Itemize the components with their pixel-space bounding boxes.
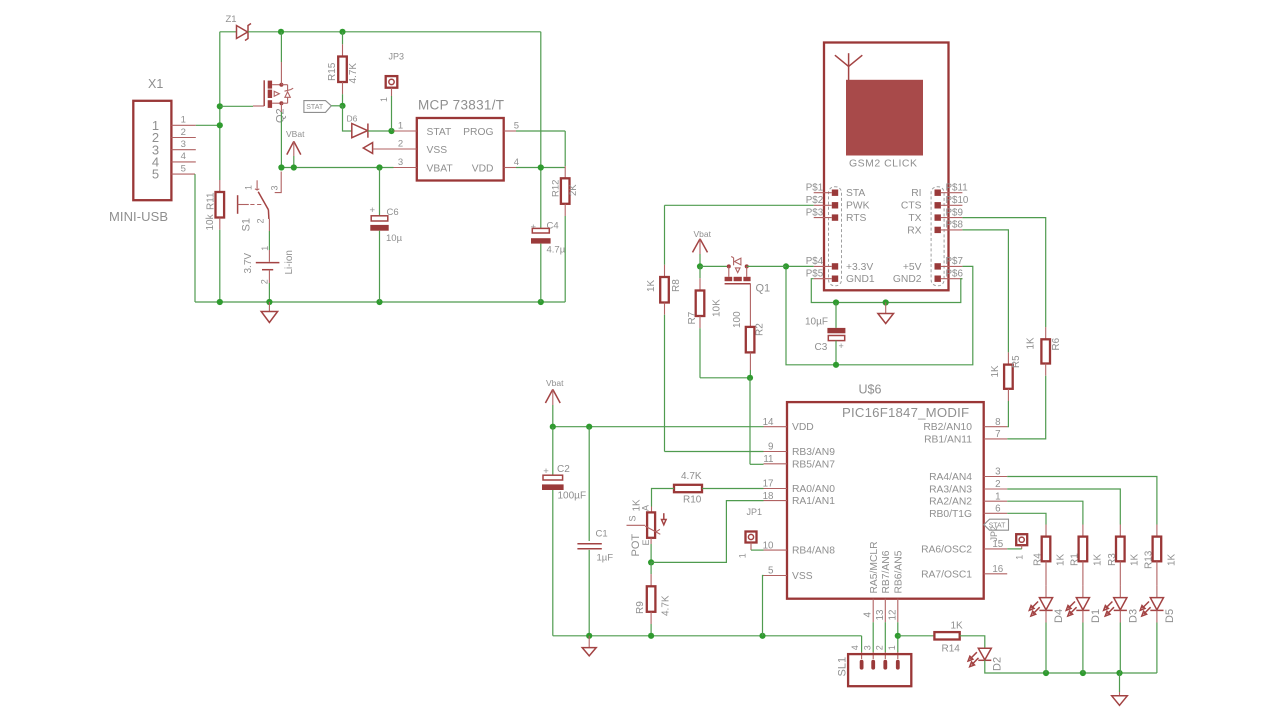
svg-text:8: 8 <box>995 417 1001 428</box>
svg-text:D3: D3 <box>1127 609 1139 623</box>
svg-text:3.7V: 3.7V <box>243 253 254 274</box>
svg-text:5: 5 <box>514 120 519 131</box>
svg-text:C2: C2 <box>557 464 570 475</box>
wire D2 to LED ground rail <box>985 660 1046 673</box>
svg-text:POT: POT <box>630 534 642 557</box>
resistor R11 10k <box>219 180 221 192</box>
svg-text:A: A <box>641 505 651 511</box>
svg-text:X1: X1 <box>148 77 163 91</box>
svg-text:+5V: +5V <box>903 262 922 273</box>
svg-text:RA3/AN3: RA3/AN3 <box>929 485 972 496</box>
wire R8 to PIC RB3/AN9 <box>665 451 764 453</box>
pin 11 (RB5/AN7) of PIC <box>764 463 788 465</box>
svg-text:JP2: JP2 <box>989 526 999 542</box>
svg-text:R13: R13 <box>1144 550 1155 569</box>
pin 1 (RA2/AN2) of PIC <box>984 500 1008 502</box>
dashed header (left) of GSM2 CLICK <box>829 187 842 286</box>
svg-text:14: 14 <box>763 417 774 428</box>
svg-text:P$3: P$3 <box>806 207 824 218</box>
svg-text:1K: 1K <box>990 365 1001 377</box>
svg-text:RB7/AN6: RB7/AN6 <box>881 550 892 593</box>
svg-text:JP1: JP1 <box>747 507 763 517</box>
junction VIN rail / Q2 gate <box>217 103 223 109</box>
pin 10 (RB4/AN8) of PIC <box>764 549 788 551</box>
svg-text:Li-ion: Li-ion <box>284 250 295 274</box>
svg-text:10K: 10K <box>712 299 723 317</box>
svg-text:R6: R6 <box>1051 337 1062 350</box>
net label flag STAT (charger) <box>304 101 331 113</box>
svg-text:RI: RI <box>911 188 921 199</box>
wire LED ground rail <box>1046 672 1157 674</box>
transistor Q2 P-MOSFET <box>220 105 253 107</box>
svg-text:R7: R7 <box>687 311 698 324</box>
svg-text:RB4/AN8: RB4/AN8 <box>792 546 835 557</box>
pin 3 VBAT of MCP <box>394 167 417 169</box>
wire R10 left to POT <box>652 489 675 507</box>
module U2 GSM2 CLICK outline <box>824 43 949 291</box>
svg-text:+: + <box>839 341 844 351</box>
ground symbol (GSM module) <box>885 303 887 314</box>
LED D1 <box>1082 585 1084 597</box>
svg-text:1: 1 <box>260 246 270 251</box>
wire PIC pin12 to SL1 pad 1 and R14 <box>897 622 899 652</box>
junction VBat rail / VBat arrow <box>291 164 297 170</box>
svg-text:100: 100 <box>732 311 743 328</box>
svg-text:5: 5 <box>181 163 186 174</box>
svg-text:VBAT: VBAT <box>427 163 454 174</box>
wire D3 to ground rail <box>1119 610 1121 622</box>
svg-text:+: + <box>370 205 376 216</box>
LED D5 <box>1156 585 1158 597</box>
svg-text:D5: D5 <box>1164 609 1176 623</box>
svg-text:16: 16 <box>992 564 1003 575</box>
svg-text:PWK: PWK <box>846 201 870 212</box>
junction R15 / STAT flag / D6 <box>339 103 345 109</box>
wire Q1 gate down to R2 <box>749 284 751 327</box>
pin 13 (RB7/AN6) of PIC bottom <box>884 599 886 623</box>
svg-text:17: 17 <box>763 479 774 490</box>
wire VBat rail to MCP VBAT <box>281 167 393 169</box>
svg-text:RA5/MCLR: RA5/MCLR <box>869 541 880 593</box>
svg-text:1: 1 <box>995 491 1000 502</box>
svg-text:RA0/AN0: RA0/AN0 <box>792 484 835 495</box>
resistor R8 1K <box>664 205 666 264</box>
svg-text:4: 4 <box>863 612 874 618</box>
svg-text:3: 3 <box>995 467 1001 478</box>
resistor R9 4.7K <box>650 562 652 574</box>
wire PIC pin to R1 <box>1007 501 1083 524</box>
svg-text:18: 18 <box>763 491 774 502</box>
svg-text:R4: R4 <box>1033 553 1044 566</box>
pin 18 (RA1/AN1) of PIC <box>764 500 788 502</box>
svg-text:D6: D6 <box>347 114 358 124</box>
wire MCP VDD to C4 node <box>516 167 565 169</box>
junction ground rail / C3 <box>833 299 839 305</box>
svg-text:9: 9 <box>768 442 773 453</box>
svg-text:PROG: PROG <box>463 127 493 138</box>
svg-text:CTS: CTS <box>901 201 922 212</box>
junction ground rail / ground symbol <box>883 299 889 305</box>
svg-text:C4: C4 <box>547 221 559 232</box>
resistor R4 1K <box>1045 525 1047 537</box>
pin 2 VSS of MCP <box>394 148 417 150</box>
svg-text:3: 3 <box>269 185 279 190</box>
pin 3 stub of X1 <box>171 149 195 151</box>
svg-text:Q2: Q2 <box>275 108 287 123</box>
supply arrow VSS (points left) <box>363 143 372 154</box>
LED D2 <box>978 648 991 660</box>
resistor R3 1K <box>1119 525 1121 537</box>
svg-text:RA1/AN1: RA1/AN1 <box>792 496 835 507</box>
pin P$10 (CTS) of GSM2 CLICK <box>935 202 941 208</box>
pin 2 stub of X1 <box>171 137 195 139</box>
svg-text:SL1: SL1 <box>836 657 848 677</box>
LED D3 <box>1119 585 1121 597</box>
wire R7 bottom to R2 bottom <box>700 377 750 379</box>
pin 2 (RA3/AN3) of PIC <box>984 488 1008 490</box>
svg-text:Vbat: Vbat <box>546 378 564 388</box>
battery G1 Li-ion 3.7V <box>268 250 270 262</box>
svg-text:13: 13 <box>875 609 886 620</box>
svg-text:1: 1 <box>398 120 403 131</box>
svg-text:U$6: U$6 <box>859 383 882 397</box>
pin 4 VDD of MCP <box>504 167 516 169</box>
svg-text:R12: R12 <box>551 180 562 197</box>
svg-text:7: 7 <box>995 429 1000 440</box>
svg-text:3: 3 <box>181 139 186 150</box>
svg-text:VSS: VSS <box>792 571 813 582</box>
svg-text:JP3: JP3 <box>389 52 405 62</box>
resistor R5 1K <box>962 230 1008 353</box>
wire top VIN rail <box>281 31 541 33</box>
resistor R6 1K <box>962 218 1045 328</box>
pin 4 (RA5/MCLR) of PIC bottom <box>872 599 874 623</box>
junction GND rail / C6 <box>376 299 382 305</box>
svg-text:2: 2 <box>256 218 266 223</box>
ground symbol (LED rail) <box>1119 673 1121 692</box>
svg-text:P$7: P$7 <box>946 256 963 267</box>
LED D4 <box>1045 585 1047 597</box>
wire D5 to ground rail <box>1156 610 1158 622</box>
svg-text:RA6/OSC2: RA6/OSC2 <box>921 544 972 555</box>
svg-text:10k: 10k <box>205 213 216 230</box>
junction Vbat node / R7 <box>697 263 703 269</box>
resistor R12 2K <box>564 131 566 166</box>
junction GND rail / R9 <box>648 633 654 639</box>
resistor R2 100 <box>746 327 755 353</box>
capacitor C3 10uF <box>835 303 837 328</box>
svg-text:RA4/AN4: RA4/AN4 <box>929 472 972 483</box>
junction VDD rail / C1 <box>586 424 592 430</box>
wire MCP PROG to R12 <box>516 130 565 132</box>
svg-text:10: 10 <box>763 540 774 551</box>
wire POT node to PIC RA1/AN1 pin 18 <box>651 501 763 563</box>
pin P$1 (STA) of GSM2 CLICK <box>832 190 838 196</box>
wire Vbat node to Q1 source <box>700 265 729 267</box>
svg-text:RX: RX <box>907 225 921 236</box>
wire JP1 to PIC RB4/AN8 pin 10 <box>751 549 764 551</box>
pin 5 stub of X1 <box>171 173 195 175</box>
svg-text:P$2: P$2 <box>806 195 823 206</box>
dashed header (right) of GSM2 CLICK <box>931 187 944 286</box>
svg-text:12: 12 <box>887 610 898 621</box>
svg-text:P$9: P$9 <box>946 207 963 218</box>
svg-text:RB0/T1G: RB0/T1G <box>929 509 972 520</box>
svg-text:4.7K: 4.7K <box>348 63 359 84</box>
svg-text:D2: D2 <box>991 657 1003 671</box>
svg-text:2: 2 <box>259 279 269 284</box>
connector X1 MINI-USB <box>133 101 171 200</box>
wire bottom GND rail (charger) <box>195 301 565 303</box>
wire top rail down to VDD/C4 <box>540 32 542 229</box>
pin P$11 (RI) of GSM2 CLICK <box>935 190 941 196</box>
junction GND rail / R11 <box>217 299 223 305</box>
svg-text:3: 3 <box>862 645 872 650</box>
svg-text:10µF: 10µF <box>805 317 828 328</box>
wire bottom GND rail (PIC) <box>553 635 862 637</box>
wire VDD rail to PIC pin 14 <box>553 426 764 428</box>
svg-text:4: 4 <box>514 157 519 168</box>
svg-text:S1: S1 <box>240 218 252 231</box>
svg-text:R11: R11 <box>206 192 217 210</box>
pin 14 (VDD) of PIC <box>764 426 788 428</box>
svg-text:Z1: Z1 <box>226 14 237 25</box>
resistor R13 1K <box>1156 525 1158 537</box>
junction top rail / Q2 drain <box>278 29 284 35</box>
pin 15 (RA6/OSC2) of PIC <box>984 548 1008 550</box>
svg-text:R1: R1 <box>1070 553 1081 566</box>
svg-text:RB3/AN9: RB3/AN9 <box>792 447 835 458</box>
pin 12 (RB6/AN5) of PIC bottom <box>897 599 899 623</box>
svg-text:GND2: GND2 <box>893 274 922 285</box>
pin 17 (RA0/AN0) of PIC <box>764 488 788 490</box>
svg-text:R5: R5 <box>1011 355 1022 368</box>
svg-text:R10: R10 <box>683 495 702 506</box>
pin P$2 (PWK) of GSM2 CLICK <box>832 202 838 208</box>
pin 5 (VSS) of PIC <box>764 575 788 577</box>
svg-text:5: 5 <box>768 566 774 577</box>
svg-text:E: E <box>641 539 651 545</box>
wire PWK to R8 <box>665 204 814 206</box>
svg-text:VBat: VBat <box>286 129 305 139</box>
svg-text:1K: 1K <box>951 621 964 632</box>
svg-text:1: 1 <box>887 645 897 650</box>
svg-text:MCP 73831/T: MCP 73831/T <box>418 98 504 113</box>
svg-text:S: S <box>628 515 638 521</box>
svg-text:Vbat: Vbat <box>694 229 712 239</box>
svg-text:P$11: P$11 <box>946 182 968 193</box>
resistor R15 4.7K <box>342 32 344 45</box>
pin P$9 (TX) of GSM2 CLICK <box>935 214 941 220</box>
transistor Q1 P-MOSFET <box>727 264 731 268</box>
svg-text:STAT: STAT <box>427 127 452 138</box>
svg-text:10µ: 10µ <box>386 233 403 244</box>
net label flag STAT (PIC side) <box>984 519 1009 530</box>
pin 4 stub of X1 <box>171 161 195 163</box>
switch S1 <box>275 172 282 193</box>
wire R14 to D2 <box>960 636 985 649</box>
wire R10 to PIC RA0/AN0 <box>702 488 764 490</box>
pin 16 (RA7/OSC1) of PIC <box>984 573 1008 575</box>
svg-text:RB1/AN11: RB1/AN11 <box>924 434 972 445</box>
svg-text:STAT: STAT <box>306 104 324 111</box>
svg-text:1: 1 <box>379 97 389 102</box>
pin P$4 (+3.3V) of GSM2 CLICK <box>832 263 838 269</box>
svg-text:RB2/AN10: RB2/AN10 <box>923 422 972 433</box>
capacitor C2 100uF <box>552 427 554 475</box>
svg-text:P$10: P$10 <box>946 195 969 206</box>
wire D4 to ground rail <box>1045 610 1047 622</box>
junction Vbat / C2 <box>550 424 556 430</box>
svg-text:R9: R9 <box>635 601 646 614</box>
junction GND rail / VSS <box>759 633 765 639</box>
svg-text:4.7µ: 4.7µ <box>547 245 566 256</box>
junction VBat rail / Q2 source <box>278 164 284 170</box>
svg-text:R14: R14 <box>942 644 961 655</box>
svg-text:1K: 1K <box>646 279 657 292</box>
svg-text:5: 5 <box>152 167 159 182</box>
svg-text:1: 1 <box>243 185 253 190</box>
junction GND rail / battery <box>266 299 272 305</box>
junction GND rail / C4 <box>538 299 544 305</box>
pin 8 (RB2/AN10) of PIC <box>984 426 1008 428</box>
wire VIN left rail vertical <box>219 32 221 180</box>
svg-text:100µF: 100µF <box>558 491 587 502</box>
svg-text:2: 2 <box>398 138 403 149</box>
junction VDD / C4 vertical <box>538 164 544 170</box>
svg-text:R15: R15 <box>327 62 338 81</box>
antenna symbol of GSM2 CLICK <box>848 66 850 80</box>
pin 6 (RB0/T1G) of PIC <box>984 512 1008 514</box>
pin P$5 (GND1) of GSM2 CLICK <box>832 276 838 282</box>
svg-text:1K: 1K <box>1025 337 1036 349</box>
svg-text:GND1: GND1 <box>846 274 875 285</box>
junction rail / D3 <box>1116 670 1122 676</box>
svg-text:1µF: 1µF <box>597 553 614 564</box>
svg-text:4: 4 <box>850 645 860 650</box>
resistor R14 1K <box>898 635 935 637</box>
wire +3.3V/+5V tie rail <box>786 266 973 364</box>
wire PIC VSS down to GND rail <box>763 576 764 636</box>
svg-text:P$1: P$1 <box>806 182 823 193</box>
resistor R7 10K <box>699 266 701 278</box>
ground symbol (battery) <box>268 302 270 312</box>
svg-text:+: + <box>531 222 537 233</box>
svg-text:1K: 1K <box>1055 553 1066 566</box>
svg-text:C1: C1 <box>596 529 608 540</box>
svg-text:4.7K: 4.7K <box>681 471 702 482</box>
wire X1 pin1 to VIN rail <box>196 124 220 126</box>
pin 5 PROG of MCP <box>504 130 516 132</box>
svg-text:D4: D4 <box>1053 609 1065 623</box>
svg-text:11: 11 <box>763 454 773 465</box>
svg-text:4: 4 <box>181 151 186 162</box>
resistor R1 1K <box>1082 525 1084 537</box>
wire PIC pin to R3 <box>1007 489 1120 525</box>
svg-text:RB5/AN7: RB5/AN7 <box>792 459 835 470</box>
svg-text:STA: STA <box>846 188 865 199</box>
svg-text:1: 1 <box>738 553 748 558</box>
potentiometer POT 1K <box>647 512 655 537</box>
wire gate node down to PIC RB5/AN7 pin 11 <box>749 378 751 465</box>
svg-text:2K: 2K <box>568 184 579 196</box>
junction GND rail / C1 <box>586 633 592 639</box>
wire PIC pin13 to SL1 pad 2 <box>884 622 886 652</box>
wire Q1 drain to +3.3V node <box>747 265 786 267</box>
wire X1 pin5 down to GND rail <box>194 174 196 302</box>
svg-text:P$4: P$4 <box>806 256 824 267</box>
junction R7/R2/PIC RA0 node <box>747 375 753 381</box>
svg-text:MINI-USB: MINI-USB <box>109 209 168 224</box>
capacitor C6 10u <box>379 168 381 216</box>
junction +3.3V node <box>783 263 789 269</box>
svg-text:1: 1 <box>181 115 186 126</box>
svg-text:RA2/AN2: RA2/AN2 <box>929 497 972 508</box>
wire GND1 down to module ground rail <box>811 279 962 303</box>
GSM2 CLICK filled block <box>846 80 923 156</box>
svg-text:P$8: P$8 <box>946 220 964 231</box>
junction VBat rail / C6 <box>376 164 382 170</box>
junction top rail / R15 <box>339 29 345 35</box>
junction tie rail / C3 bottom <box>833 362 839 368</box>
wire GND rail to SL1 pad 4 <box>861 636 863 652</box>
wire PIC pin to R4 <box>1007 513 1046 524</box>
wire JP2 to PIC RA6/OSC2 pin 15 <box>1007 548 1022 550</box>
pin P$7 (+5V) of GSM2 CLICK <box>935 263 941 269</box>
svg-text:6: 6 <box>995 504 1001 515</box>
svg-text:3: 3 <box>398 157 403 168</box>
pin 9 (RB3/AN9) of PIC <box>764 451 788 453</box>
pin P$6 (GND2) of GSM2 CLICK <box>935 276 941 282</box>
pin 1 stub of X1 <box>171 124 195 126</box>
wire S1 pin2 to battery <box>268 219 270 231</box>
svg-text:2: 2 <box>181 127 186 138</box>
wire PIC pin to R13 <box>1007 477 1157 525</box>
svg-text:1K: 1K <box>1166 553 1177 566</box>
svg-text:4.7K: 4.7K <box>661 595 672 616</box>
junction pin12 / R14 <box>895 633 901 639</box>
wire Q2 drain up to top rail <box>280 32 282 62</box>
svg-text:VSS: VSS <box>427 145 448 156</box>
wire D1 to ground rail <box>1082 610 1084 622</box>
svg-text:VDD: VDD <box>472 163 494 174</box>
wire POT bottom / R9 junction <box>650 538 652 544</box>
wire PIC pin4 to SL1 pad 3 <box>872 622 874 652</box>
svg-text:GSM2 CLICK: GSM2 CLICK <box>849 157 917 169</box>
svg-text:VDD: VDD <box>792 422 814 433</box>
pin P$3 (RTS) of GSM2 CLICK <box>832 214 838 220</box>
svg-text:Q1: Q1 <box>756 283 771 295</box>
svg-text:P$6: P$6 <box>946 268 964 279</box>
junction VIN rail / X1 pin1 <box>217 122 223 128</box>
svg-text:R8: R8 <box>671 279 682 292</box>
wire Q2 source down to VBat rail <box>280 103 282 112</box>
pin 1 STAT of MCP <box>394 130 417 132</box>
svg-text:TX: TX <box>908 213 921 224</box>
wire +3.3V pin to Q1 <box>786 265 814 267</box>
pin P$8 (RX) of GSM2 CLICK <box>935 227 941 233</box>
svg-text:2: 2 <box>875 645 885 650</box>
svg-text:PIC16F1847_MODIF: PIC16F1847_MODIF <box>842 405 969 420</box>
junction rail / D4 <box>1043 670 1049 676</box>
svg-text:P$5: P$5 <box>806 268 824 279</box>
svg-text:2: 2 <box>995 479 1000 490</box>
svg-text:1K: 1K <box>1130 553 1141 566</box>
pin 3 (RA4/AN4) of PIC <box>984 476 1008 478</box>
junction rail / D1 <box>1080 670 1086 676</box>
svg-text:C3: C3 <box>815 342 828 353</box>
svg-text:RA7/OSC1: RA7/OSC1 <box>921 569 972 580</box>
